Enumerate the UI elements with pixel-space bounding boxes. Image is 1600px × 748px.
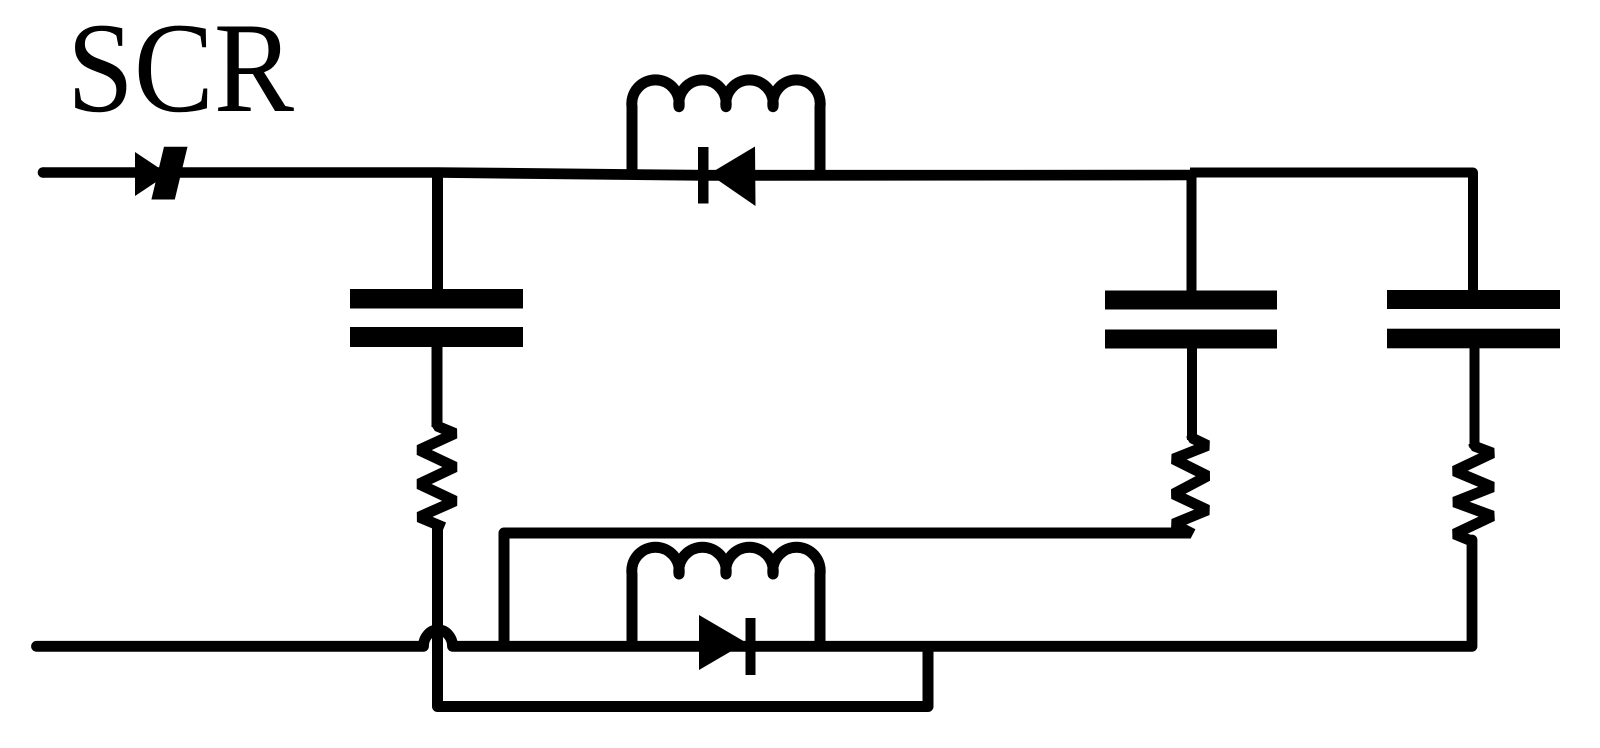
resistor R3 xyxy=(1455,444,1493,542)
resistor R2 xyxy=(1174,436,1208,534)
wire C3 to R3 xyxy=(1470,347,1480,448)
capacitor C2 xyxy=(1105,291,1277,349)
wire R1 down through hop to lower loop xyxy=(438,524,929,707)
capacitor C1 xyxy=(350,289,523,347)
wire top bus left end cap xyxy=(38,167,49,178)
thyristor SCR xyxy=(135,147,188,200)
wire bottom bus with hop xyxy=(37,540,1473,646)
svg-text:SCR: SCR xyxy=(67,0,294,139)
diode D1 xyxy=(698,147,756,207)
wire C2 to R2 xyxy=(1187,347,1197,440)
inductor L2 xyxy=(632,547,820,651)
diode D2 xyxy=(699,615,756,675)
inductor L1 xyxy=(632,80,820,177)
wire node1 to C1 xyxy=(432,174,443,291)
wire top right xyxy=(1190,173,1473,292)
wire top bus xyxy=(43,167,1193,181)
resistor R1 xyxy=(419,423,455,528)
wire upper loop to R2 xyxy=(504,533,1190,645)
wire C1 to R1 xyxy=(432,345,443,427)
wire C2 top lead xyxy=(1187,175,1197,291)
capacitor C3 xyxy=(1387,290,1560,348)
